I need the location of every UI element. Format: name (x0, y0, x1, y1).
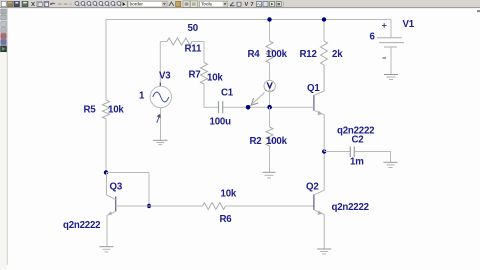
transistor Q1 (314, 65, 324, 152)
label 10k of R7 (207, 73, 223, 84)
wire feedback down (148, 173, 150, 207)
node junction left (104, 170, 108, 174)
svg-text:10k: 10k (221, 189, 237, 200)
sidebar text icon (1, 22, 6, 27)
capacitor C2 (350, 147, 354, 158)
label R11 (185, 44, 202, 55)
svg-text:Q2: Q2 (306, 182, 319, 193)
svg-text:q2n2222: q2n2222 (337, 126, 374, 137)
label 50 (188, 23, 198, 34)
label V3 (159, 71, 171, 82)
toolbar probe V icon (245, 2, 249, 8)
battery V1 (377, 20, 404, 75)
source V3 (150, 83, 171, 108)
wire C2 left (324, 151, 350, 153)
toolbar combo box 2 (200, 1, 228, 7)
canvas corner mark (477, 10, 480, 12)
toolbar separator line (283, 2, 285, 7)
svg-text:7: 7 (251, 2, 254, 8)
label V1 (403, 19, 415, 30)
wire V3 bottom (160, 108, 162, 140)
node junction R4 rail (267, 17, 271, 21)
svg-text:q2n2222: q2n2222 (332, 202, 369, 213)
label R4 (248, 49, 261, 60)
ground below Q2 (317, 249, 331, 254)
label R2 (250, 136, 262, 147)
wire R11 right lead (192, 41, 204, 43)
resistor R12 (321, 41, 328, 65)
label C2 (352, 135, 364, 146)
resistor R7 (201, 63, 208, 85)
sidebar select icon (1, 9, 6, 14)
svg-text:V1: V1 (403, 19, 415, 30)
label 1m of C2 (350, 157, 364, 168)
ground below R2 (263, 172, 276, 178)
toolbar cut icon (32, 2, 35, 6)
toolbar paste icon (44, 1, 49, 6)
label 1 of V3 (139, 91, 145, 102)
wire R7 to C1 (204, 84, 218, 107)
voltmeter probe (249, 80, 275, 106)
left sidebar (0, 8, 7, 270)
svg-text:50: 50 (188, 23, 198, 34)
wire R2 top (269, 107, 271, 127)
label Q2 (306, 182, 319, 193)
ground right of C2 (384, 162, 398, 167)
svg-text:R6: R6 (220, 214, 233, 225)
ground below V1 (384, 75, 398, 80)
toolbar zoom icon (75, 2, 79, 7)
label R12 (300, 49, 317, 60)
wire R11 to V3 (159, 42, 161, 87)
resistor R11 (167, 38, 192, 45)
label 100k of R4 (266, 49, 288, 60)
toolbar stop icon (276, 2, 281, 7)
toolbar zoom icon (111, 2, 115, 7)
label R6 (220, 214, 233, 225)
toolbar zoom icon (87, 2, 91, 7)
svg-text:R12: R12 (300, 49, 317, 60)
label 10k of R6 (221, 189, 237, 200)
sidebar wire icon (1, 15, 6, 20)
resistor R5 (103, 100, 110, 119)
wire R2 bottom (269, 146, 271, 172)
toolbar print icon (22, 1, 28, 6)
label Q3 (110, 182, 123, 193)
toolbar probe I icon (251, 2, 254, 8)
label Q1 (307, 83, 320, 94)
toolbar open icon (8, 1, 14, 6)
node junction R12 rail (322, 17, 326, 21)
toolbar zoom icon (93, 2, 97, 7)
svg-text:R5: R5 (84, 105, 97, 116)
toolbar pressed button B (190, 1, 197, 7)
label q2n2222 of Q1 (337, 126, 374, 137)
toolbar combo box 1 (128, 1, 167, 7)
svg-text:100k: 100k (266, 136, 288, 147)
toolbar meter icon (263, 2, 268, 7)
node junction R2 (267, 105, 272, 110)
sidebar play icon (1, 46, 7, 52)
toolbar undo icon (50, 3, 55, 5)
wire R11 to R7 (203, 42, 205, 63)
svg-text:1: 1 (139, 91, 145, 102)
toolbar zoom icon (81, 2, 85, 7)
sidebar red icon (1, 34, 6, 39)
wire R11 left lead (160, 41, 167, 43)
svg-text:R11: R11 (185, 44, 202, 55)
svg-text:V3: V3 (159, 71, 171, 82)
svg-text:100u: 100u (210, 117, 232, 128)
wire C2 right (355, 152, 391, 163)
toolbar zoom icon (117, 2, 121, 7)
toolbar component icon (176, 1, 181, 6)
sidebar lines icon (1, 28, 6, 33)
toolbar new icon (1, 1, 6, 6)
svg-text:R7: R7 (189, 70, 201, 81)
toolbar pressed button A (183, 1, 190, 7)
wire feedback top (106, 172, 149, 174)
svg-text:10k: 10k (207, 73, 223, 84)
toolbar zoom icon (99, 2, 103, 7)
node junction probe (246, 105, 251, 110)
svg-text:R2: R2 (250, 136, 262, 147)
resistor R4 (266, 41, 273, 63)
label 2k of R12 (332, 49, 343, 60)
toolbar pointer icon (121, 1, 127, 7)
capacitor C1 (219, 101, 223, 113)
svg-text:V: V (245, 2, 249, 8)
svg-text:Q3: Q3 (110, 182, 123, 193)
svg-text:R4: R4 (248, 49, 261, 60)
svg-text:Tools: Tools (201, 2, 213, 7)
transistor Q2 (314, 152, 324, 249)
label 10k of R5 (108, 105, 124, 116)
toolbar rotate icon (230, 2, 235, 6)
toolbar scope icon (257, 2, 262, 7)
node junction base Q3 (147, 204, 151, 208)
wire R12 bottom (323, 65, 325, 91)
label 6 of V1 (370, 32, 376, 43)
label q2n2222 of Q3 (63, 220, 100, 231)
label 100u of C1 (210, 117, 232, 128)
svg-text:2k: 2k (332, 49, 343, 60)
svg-text:Q1: Q1 (307, 83, 320, 94)
ground below Q3 (100, 247, 114, 252)
svg-text:border: border (130, 2, 144, 7)
toolbar separator marks (58, 3, 72, 5)
wire R6 right to Q2 (226, 205, 314, 207)
toolbar mirror icon (237, 2, 241, 6)
wire left column top (105, 20, 107, 101)
label q2n2222 of Q2 (332, 202, 369, 213)
wire top rail (106, 19, 391, 21)
label R5 (84, 105, 97, 116)
sidebar blue icon (1, 40, 6, 45)
svg-text:6: 6 (370, 32, 376, 43)
label 100k of R2 (266, 136, 288, 147)
svg-text:1m: 1m (350, 157, 364, 168)
wire left column bottom (105, 119, 107, 173)
wire R12 top (323, 20, 325, 42)
label R7 (189, 70, 201, 81)
wire meter to node (269, 92, 271, 107)
toolbar background (0, 0, 480, 8)
svg-text:C1: C1 (221, 88, 234, 99)
toolbar wire icon (169, 2, 174, 6)
svg-text:100k: 100k (266, 49, 288, 60)
source V3 phase arrow (157, 114, 161, 123)
wire R4 to meter (269, 63, 271, 80)
ground below V3 (153, 140, 168, 144)
transistor Q3 (107, 173, 150, 247)
node junction collector Q2 (322, 149, 326, 153)
toolbar run icon (270, 2, 275, 7)
resistor R2 (266, 127, 273, 146)
wire R6 left (149, 205, 203, 207)
svg-text:q2n2222: q2n2222 (63, 220, 100, 231)
svg-text:10k: 10k (108, 105, 124, 116)
toolbar copy icon (37, 1, 42, 6)
toolbar zoom icon (105, 2, 109, 7)
wire R4 top (269, 20, 271, 42)
label C1 (221, 88, 234, 99)
toolbar save icon (14, 1, 20, 6)
wire C1 right row (223, 106, 314, 108)
resistor R6 (203, 203, 226, 210)
